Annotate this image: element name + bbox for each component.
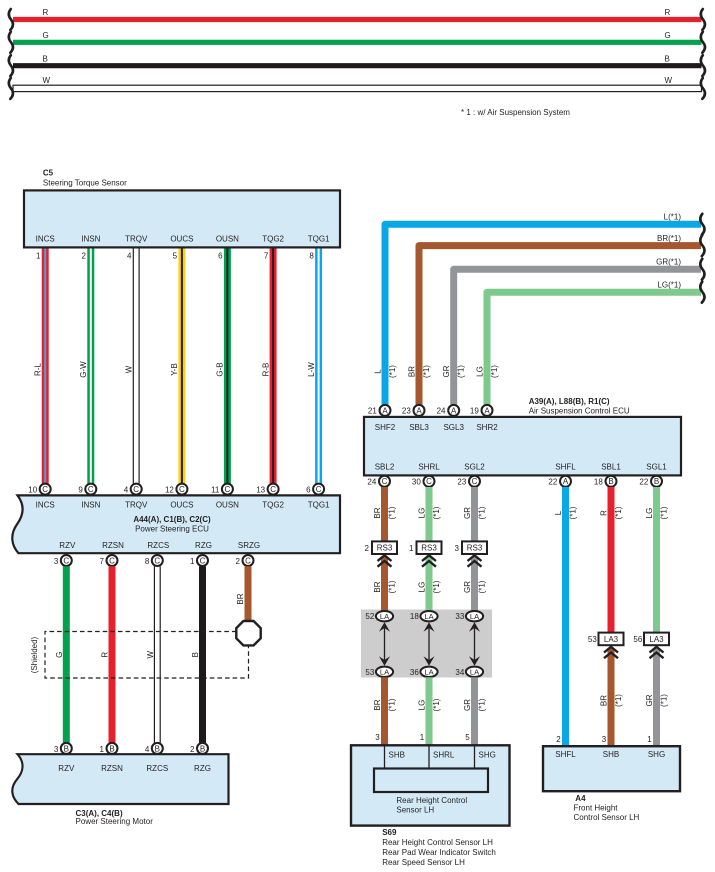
- svg-text:RS3: RS3: [421, 544, 437, 553]
- wire R RZSN: [109, 566, 116, 743]
- svg-text:C: C: [200, 556, 206, 565]
- svg-text:6: 6: [218, 251, 223, 260]
- wire LG(*1) bent: [487, 292, 701, 405]
- svg-text:OUCS: OUCS: [170, 500, 193, 509]
- svg-text:LG: LG: [476, 366, 485, 377]
- S69 inner box: [374, 769, 488, 793]
- arrow between LA: [384, 624, 386, 664]
- svg-text:52: 52: [365, 612, 374, 621]
- svg-text:A: A: [451, 406, 457, 415]
- svg-text:TRQV: TRQV: [125, 500, 148, 509]
- svg-text:R: R: [600, 510, 609, 516]
- svg-text:R-L: R-L: [34, 363, 43, 376]
- svg-text:C: C: [382, 477, 388, 486]
- svg-text:R: R: [665, 8, 671, 17]
- chevrons below RS3: [422, 555, 436, 561]
- svg-text:* 1 : w/ Air Suspension System: * 1 : w/ Air Suspension System: [461, 108, 570, 117]
- wire GR(*1) mid: [471, 557, 478, 612]
- svg-text:C: C: [426, 477, 432, 486]
- svg-text:Power Steering Motor: Power Steering Motor: [76, 817, 154, 826]
- svg-text:B: B: [200, 744, 205, 753]
- wire LG(*1) upper right: [653, 487, 660, 634]
- svg-text:24: 24: [437, 406, 446, 415]
- break squiggle right W: [701, 78, 705, 99]
- svg-text:B: B: [191, 652, 200, 657]
- svg-text:BR: BR: [373, 581, 382, 592]
- wire G bus: [13, 40, 702, 45]
- svg-text:7: 7: [100, 557, 105, 566]
- wire G-B OUSN: [224, 249, 231, 484]
- wire BR(*1) bent: [419, 246, 701, 405]
- svg-text:W: W: [665, 76, 673, 85]
- break squiggle left G: [9, 32, 13, 53]
- wire BR(*1) lower: [381, 677, 388, 744]
- svg-text:Rear Pad Wear Indicator Switch: Rear Pad Wear Indicator Switch: [382, 848, 496, 857]
- svg-text:LA: LA: [470, 612, 479, 621]
- chevrons below RS3: [468, 555, 482, 561]
- svg-text:B: B: [43, 54, 48, 63]
- svg-text:C: C: [179, 485, 185, 494]
- svg-text:C: C: [88, 485, 94, 494]
- air ECU box: [364, 417, 681, 476]
- svg-text:(*1): (*1): [387, 698, 396, 711]
- svg-text:2: 2: [365, 544, 370, 553]
- svg-text:TQG2: TQG2: [262, 500, 284, 509]
- wire B bus: [13, 63, 702, 68]
- wire R-L INCS: [42, 249, 49, 484]
- wire Y-B OUCS: [178, 249, 185, 484]
- svg-text:B: B: [654, 477, 659, 486]
- svg-text:(*1): (*1): [388, 365, 397, 378]
- svg-text:5: 5: [173, 251, 178, 260]
- break squiggle right G: [701, 32, 705, 53]
- wire LG(*1) lower: [426, 677, 433, 744]
- svg-text:TQG1: TQG1: [308, 234, 330, 243]
- svg-text:TRQV: TRQV: [125, 234, 148, 243]
- svg-text:BR(*1): BR(*1): [657, 234, 681, 243]
- wire G RZV: [63, 566, 70, 743]
- svg-text:SBL1: SBL1: [601, 462, 621, 471]
- svg-text:SHF2: SHF2: [375, 423, 396, 432]
- svg-text:(*1): (*1): [422, 365, 431, 378]
- svg-text:LA: LA: [424, 612, 433, 621]
- svg-text:21: 21: [368, 406, 377, 415]
- svg-text:OUSN: OUSN: [216, 500, 239, 509]
- wire R-B TQG2: [270, 249, 277, 484]
- svg-text:OUSN: OUSN: [216, 234, 239, 243]
- svg-text:(*1): (*1): [477, 698, 486, 711]
- svg-text:B: B: [155, 744, 160, 753]
- svg-text:Sensor LH: Sensor LH: [396, 806, 434, 815]
- svg-text:A4: A4: [575, 794, 586, 803]
- svg-text:RZV: RZV: [58, 764, 75, 773]
- svg-text:Power Steering ECU: Power Steering ECU: [135, 524, 209, 533]
- svg-text:3: 3: [375, 733, 380, 742]
- svg-text:SHG: SHG: [648, 750, 665, 759]
- junction gray box: [361, 610, 492, 678]
- wire stub SHRL inside S69: [428, 746, 430, 769]
- svg-text:56: 56: [633, 635, 642, 644]
- svg-text:G: G: [55, 652, 64, 658]
- svg-text:Y-B: Y-B: [170, 363, 179, 376]
- svg-text:RZV: RZV: [59, 541, 76, 550]
- svg-text:A: A: [563, 477, 569, 486]
- svg-text:W: W: [125, 365, 134, 373]
- svg-text:GR(*1): GR(*1): [656, 258, 681, 267]
- svg-text:S69: S69: [382, 828, 397, 837]
- svg-text:5: 5: [465, 733, 470, 742]
- svg-text:4: 4: [145, 745, 150, 754]
- chevrons below RS3: [378, 555, 392, 561]
- svg-text:B: B: [64, 744, 69, 753]
- svg-text:2: 2: [236, 557, 241, 566]
- wire stub SHG inside S69: [474, 746, 476, 769]
- svg-text:1: 1: [647, 735, 652, 744]
- break squiggle BR(*1): [700, 235, 704, 256]
- wire stub SHB inside S69: [384, 746, 386, 769]
- svg-text:SGL2: SGL2: [464, 462, 485, 471]
- svg-text:LG: LG: [645, 508, 654, 519]
- wire BR(*1) mid: [381, 557, 388, 612]
- svg-text:SHG: SHG: [479, 751, 496, 760]
- break squiggle right B: [701, 55, 705, 76]
- svg-text:SHFL: SHFL: [555, 462, 576, 471]
- wire L-W TQG1: [315, 249, 322, 484]
- svg-text:(*1): (*1): [490, 365, 499, 378]
- svg-text:L-W: L-W: [307, 362, 316, 377]
- svg-text:BR: BR: [373, 507, 382, 518]
- svg-text:34: 34: [455, 668, 464, 677]
- svg-text:1: 1: [100, 745, 105, 754]
- svg-text:(*1): (*1): [432, 506, 441, 519]
- svg-text:C: C: [133, 485, 139, 494]
- svg-text:SBL3: SBL3: [409, 423, 429, 432]
- chevrons below 53 LA3: [604, 647, 618, 653]
- svg-text:11: 11: [211, 485, 220, 494]
- svg-text:1: 1: [420, 733, 425, 742]
- svg-text:A39(A), L88(B), R1(C): A39(A), L88(B), R1(C): [529, 397, 610, 406]
- svg-text:G-W: G-W: [79, 361, 88, 378]
- break squiggle LG(*1): [700, 282, 704, 303]
- svg-text:Air Suspension Control ECU: Air Suspension Control ECU: [529, 406, 630, 415]
- svg-text:(*1): (*1): [659, 694, 668, 707]
- break squiggle right R: [701, 9, 705, 30]
- svg-text:3: 3: [602, 735, 607, 744]
- svg-text:22: 22: [548, 477, 557, 486]
- wire GR(*1) bent: [454, 269, 701, 405]
- svg-text:SGL1: SGL1: [646, 462, 667, 471]
- svg-text:C: C: [225, 485, 231, 494]
- svg-text:R-B: R-B: [261, 363, 270, 377]
- svg-text:(*1): (*1): [477, 506, 486, 519]
- svg-text:3: 3: [455, 544, 460, 553]
- svg-text:1: 1: [409, 544, 414, 553]
- svg-text:L: L: [374, 369, 383, 374]
- svg-text:C: C: [154, 556, 160, 565]
- svg-text:C: C: [109, 556, 115, 565]
- svg-text:6: 6: [306, 485, 311, 494]
- svg-text:G: G: [43, 31, 49, 40]
- wire W RZCS: [153, 566, 155, 743]
- wire GR(*1) lower right: [653, 648, 660, 746]
- svg-text:19: 19: [470, 406, 479, 415]
- svg-text:LG: LG: [418, 582, 427, 593]
- svg-text:RZG: RZG: [194, 764, 211, 773]
- svg-text:C: C: [472, 477, 478, 486]
- svg-text:Steering Torque Sensor: Steering Torque Sensor: [43, 178, 127, 187]
- svg-text:LA: LA: [424, 668, 433, 677]
- motor C3 box: [12, 754, 228, 804]
- svg-text:A: A: [382, 406, 388, 415]
- svg-text:(*1): (*1): [659, 506, 668, 519]
- svg-text:3: 3: [54, 557, 59, 566]
- svg-text:RZSN: RZSN: [102, 541, 124, 550]
- svg-text:BR: BR: [373, 699, 382, 710]
- wire R bus: [13, 17, 702, 22]
- svg-text:(*1): (*1): [614, 694, 623, 707]
- wire L(*1) bent: [385, 224, 701, 404]
- break squiggle left B: [9, 55, 13, 76]
- svg-text:(*1): (*1): [457, 365, 466, 378]
- svg-text:BR: BR: [236, 593, 245, 604]
- svg-text:G: G: [665, 31, 671, 40]
- arrow between LA: [474, 624, 476, 664]
- svg-text:LA: LA: [380, 612, 389, 621]
- svg-text:BR: BR: [600, 695, 609, 706]
- svg-text:A: A: [416, 406, 422, 415]
- svg-text:30: 30: [412, 477, 421, 486]
- svg-text:RZCS: RZCS: [147, 541, 169, 550]
- svg-text:Control Sensor LH: Control Sensor LH: [574, 813, 640, 822]
- break squiggle left W: [9, 78, 13, 99]
- svg-text:9: 9: [78, 485, 83, 494]
- svg-text:C: C: [63, 556, 69, 565]
- svg-text:GR: GR: [442, 365, 451, 377]
- break squiggle left R: [9, 9, 13, 30]
- svg-text:Rear Height Control: Rear Height Control: [396, 796, 467, 805]
- svg-text:R: R: [43, 8, 49, 17]
- wire LG(*1) mid: [426, 557, 433, 612]
- svg-text:B: B: [608, 477, 613, 486]
- svg-text:53: 53: [588, 635, 597, 644]
- svg-text:53: 53: [365, 668, 374, 677]
- svg-text:B: B: [665, 54, 670, 63]
- svg-text:10: 10: [28, 485, 37, 494]
- wire W TRQV: [132, 249, 134, 484]
- svg-text:LG: LG: [418, 700, 427, 711]
- svg-text:LA: LA: [470, 668, 479, 677]
- svg-text:L: L: [554, 510, 563, 515]
- svg-text:33: 33: [455, 612, 464, 621]
- wire G-W INSN: [87, 249, 94, 484]
- svg-text:TQG1: TQG1: [308, 500, 330, 509]
- svg-text:LA: LA: [380, 668, 389, 677]
- svg-text:LG: LG: [418, 508, 427, 519]
- svg-text:(*1): (*1): [614, 506, 623, 519]
- svg-text:2: 2: [190, 745, 195, 754]
- svg-text:INSN: INSN: [81, 500, 100, 509]
- connector A4 box: [543, 746, 680, 791]
- svg-text:SGL3: SGL3: [443, 423, 464, 432]
- svg-text:C: C: [42, 485, 48, 494]
- chevrons below 56 LA3: [650, 647, 664, 653]
- svg-text:SHRL: SHRL: [418, 462, 440, 471]
- svg-text:BR: BR: [408, 366, 417, 377]
- wire R(*1) upper: [608, 487, 615, 634]
- svg-text:4: 4: [124, 485, 129, 494]
- wire L(*1) SHFL: [562, 487, 569, 746]
- svg-text:SHB: SHB: [389, 751, 405, 760]
- break squiggle GR(*1): [700, 259, 704, 280]
- svg-text:C: C: [245, 556, 251, 565]
- ECU A44 box: [12, 495, 340, 553]
- svg-text:INCS: INCS: [36, 500, 55, 509]
- svg-text:RS3: RS3: [377, 544, 393, 553]
- svg-text:W: W: [43, 76, 51, 85]
- svg-text:SHRL: SHRL: [433, 751, 455, 760]
- svg-text:1: 1: [190, 557, 195, 566]
- svg-text:GR: GR: [463, 581, 472, 593]
- svg-text:8: 8: [309, 251, 314, 260]
- wire GR(*1) lower: [471, 677, 478, 744]
- svg-text:13: 13: [256, 485, 265, 494]
- wire LG(*1) upper: [426, 487, 433, 541]
- svg-text:2: 2: [82, 251, 87, 260]
- svg-text:12: 12: [165, 485, 174, 494]
- svg-text:4: 4: [127, 251, 132, 260]
- svg-text:A44(A), C1(B), C2(C): A44(A), C1(B), C2(C): [133, 515, 211, 524]
- svg-text:LG(*1): LG(*1): [657, 281, 681, 290]
- svg-text:L(*1): L(*1): [664, 213, 682, 222]
- svg-text:(*1): (*1): [432, 580, 441, 593]
- svg-text:RZSN: RZSN: [101, 764, 123, 773]
- svg-text:TQG2: TQG2: [262, 234, 284, 243]
- svg-text:(*1): (*1): [477, 580, 486, 593]
- svg-text:23: 23: [402, 406, 411, 415]
- shield ground octagon: [236, 621, 260, 645]
- svg-text:23: 23: [457, 477, 466, 486]
- svg-text:C: C: [316, 485, 322, 494]
- svg-text:INSN: INSN: [81, 234, 100, 243]
- svg-text:LA3: LA3: [649, 635, 664, 644]
- svg-text:(*1): (*1): [568, 506, 577, 519]
- svg-text:8: 8: [145, 557, 150, 566]
- svg-text:SHB: SHB: [603, 750, 619, 759]
- svg-text:1: 1: [36, 251, 41, 260]
- svg-text:RZG: RZG: [195, 541, 212, 550]
- svg-text:R: R: [101, 652, 110, 658]
- svg-text:SRZG: SRZG: [238, 541, 260, 550]
- svg-text:SBL2: SBL2: [375, 462, 395, 471]
- svg-text:INCS: INCS: [36, 234, 55, 243]
- wire BR SRZG: [245, 566, 252, 621]
- svg-text:GR: GR: [463, 507, 472, 519]
- svg-text:SHR2: SHR2: [476, 423, 498, 432]
- arrow between LA: [428, 624, 430, 664]
- svg-text:36: 36: [410, 668, 419, 677]
- shield dashed box: [45, 632, 249, 679]
- break squiggle L(*1): [700, 214, 704, 235]
- wire B RZG: [199, 566, 206, 743]
- svg-text:Rear Height Control Sensor LH: Rear Height Control Sensor LH: [382, 838, 493, 847]
- svg-text:LA3: LA3: [604, 635, 619, 644]
- svg-text:RS3: RS3: [467, 544, 483, 553]
- wire BR(*1) lower right: [608, 648, 615, 746]
- svg-text:(*1): (*1): [387, 506, 396, 519]
- svg-text:B: B: [109, 744, 114, 753]
- svg-text:7: 7: [264, 251, 269, 260]
- wire GR(*1) upper: [471, 487, 478, 541]
- svg-text:2: 2: [556, 735, 561, 744]
- svg-text:(*1): (*1): [432, 698, 441, 711]
- svg-text:(*1): (*1): [387, 580, 396, 593]
- svg-text:G-B: G-B: [216, 362, 225, 376]
- svg-text:Front Height: Front Height: [574, 803, 619, 812]
- svg-text:SHFL: SHFL: [555, 750, 576, 759]
- wire BR(*1) upper: [381, 487, 388, 541]
- svg-text:RZCS: RZCS: [146, 764, 168, 773]
- svg-text:24: 24: [367, 477, 376, 486]
- svg-text:C: C: [270, 485, 276, 494]
- svg-text:(Shielded): (Shielded): [30, 636, 39, 673]
- svg-text:Rear Speed Sensor LH: Rear Speed Sensor LH: [382, 858, 465, 867]
- svg-text:OUCS: OUCS: [170, 234, 193, 243]
- connector C5 box: [24, 190, 340, 247]
- svg-text:W: W: [146, 650, 155, 658]
- svg-text:C5: C5: [43, 168, 54, 177]
- svg-text:3: 3: [54, 745, 59, 754]
- svg-text:22: 22: [639, 477, 648, 486]
- wire W bus: [13, 85, 702, 91]
- svg-text:18: 18: [410, 612, 419, 621]
- svg-text:GR: GR: [645, 694, 654, 706]
- svg-text:18: 18: [594, 477, 603, 486]
- connector S69 box: [351, 745, 510, 825]
- svg-text:GR: GR: [463, 699, 472, 711]
- svg-text:A: A: [484, 406, 490, 415]
